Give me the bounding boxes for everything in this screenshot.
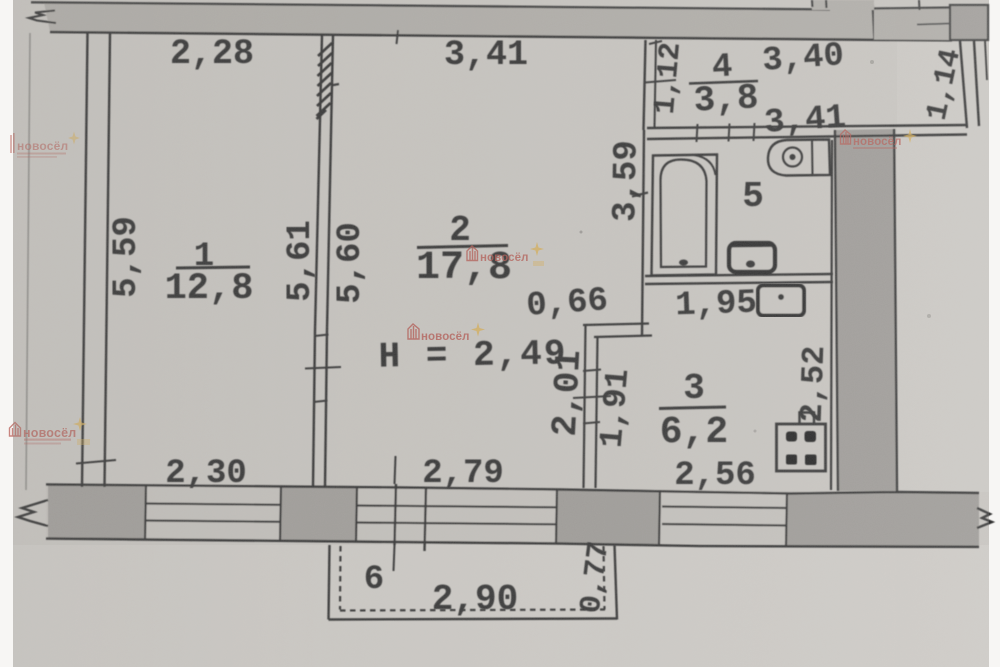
balcony bottom solid edge bbox=[329, 619, 618, 620]
bottom band dark right section bbox=[786, 493, 979, 547]
bottom band dark block 3 bbox=[556, 489, 659, 545]
room2/hallway wall (x~645) upper bbox=[644, 40, 646, 130]
right wall band (vertical) bbox=[835, 129, 897, 491]
dim tick 1,12 y81 bbox=[645, 80, 676, 83]
bottom band dark block 2 bbox=[280, 487, 356, 542]
hallway dim line x655 bbox=[655, 40, 657, 127]
faint building outline line far left bbox=[26, 33, 30, 490]
watermark B (left, y~430) bbox=[10, 417, 91, 445]
middle wall line right bbox=[325, 35, 333, 487]
bathtub inner bbox=[661, 160, 707, 268]
step line in second band bbox=[917, 24, 950, 25]
kitchen wall rung y370 bbox=[583, 370, 601, 372]
top band top edge bbox=[31, 2, 830, 9]
dim extension line above band x395 bbox=[395, 456, 396, 484]
right wall band right edge bbox=[894, 129, 897, 491]
bathroom left wall bbox=[642, 130, 644, 336]
watermark E (right, y~140) bbox=[841, 129, 918, 149]
right wall band left edge bbox=[835, 130, 838, 491]
balcony dashed right bbox=[604, 546, 605, 610]
middle wall dim tick y367 bbox=[305, 367, 341, 369]
hallway right outer wall line B bbox=[974, 41, 979, 126]
kitchen step bottom line bbox=[594, 336, 652, 338]
top band divider at x874 bbox=[873, 0, 875, 40]
left outer wall line bbox=[82, 33, 88, 487]
watermark C (center, over 17,8) bbox=[467, 242, 544, 266]
bottom band bottom edge bbox=[46, 539, 979, 547]
kitchen step top line bbox=[583, 324, 649, 326]
bathroom/kitchen right boundary bbox=[831, 140, 832, 490]
lighter paper right column bbox=[897, 40, 989, 492]
room 4 underline bbox=[689, 81, 758, 84]
bottom band break symbol left bbox=[18, 500, 48, 526]
bottom band break symbol right bbox=[977, 508, 992, 528]
hallway right outer wall line A bbox=[960, 41, 967, 128]
sink faucet circle bbox=[783, 148, 802, 167]
room 2 underline bbox=[417, 246, 508, 248]
sink divider bbox=[811, 140, 814, 175]
kitchen wall rung y422 bbox=[583, 422, 600, 424]
tick on bathroom wall y194 bbox=[632, 193, 648, 197]
room 3 underline bbox=[659, 407, 726, 409]
band join fill below image top bbox=[812, 0, 874, 10]
window mullion x~425 crossing band bbox=[425, 487, 427, 551]
watermark D (center, above H=2,49) bbox=[408, 323, 485, 344]
balcony left solid edge bbox=[329, 545, 330, 620]
dim tick on left wall y460 bbox=[76, 460, 116, 464]
balcony dashed bottom bbox=[340, 610, 605, 611]
bathtub outer rect bbox=[652, 155, 718, 276]
sink faucet dot bbox=[790, 154, 796, 160]
dim extension below band x394 bbox=[394, 545, 395, 571]
toilet tank edge bbox=[731, 242, 773, 247]
middle wall rung y335 bbox=[315, 335, 329, 337]
ticks on hallway bottom wall bbox=[697, 124, 698, 142]
scan noise overlay bbox=[0, 0, 1, 1]
window mullion x~395 crossing band bbox=[395, 484, 397, 545]
bottom band block edges bbox=[145, 485, 146, 540]
toilet body bbox=[729, 243, 775, 272]
middle wall hatched section strokes bbox=[317, 43, 333, 119]
kitchen wall dim tick y396 bbox=[573, 396, 611, 398]
room 1 underline bbox=[176, 267, 250, 268]
washer box overlay (covers digit of 1,95) bbox=[758, 286, 804, 316]
second section top edge bbox=[874, 8, 952, 9]
balcony right solid edge bbox=[615, 545, 618, 620]
top band break symbol (left end) bbox=[29, 11, 56, 24]
middle wall line left (rooms 1/2) bbox=[313, 35, 322, 487]
wall stubs above band bbox=[811, 0, 814, 7]
middle wall hatch tick bbox=[331, 84, 339, 86]
watermark A (left, y~144) bbox=[11, 132, 80, 158]
hallway bottom wall line 2 bbox=[647, 135, 967, 140]
dim tick 1,12 top bbox=[649, 41, 662, 44]
tick on top band x397 bbox=[397, 30, 399, 44]
bathtub drain dot bbox=[679, 260, 688, 266]
bathroom bottom wall line 2 bbox=[645, 282, 833, 284]
sink body bbox=[768, 140, 830, 176]
toilet dot bbox=[746, 261, 755, 268]
bottom wall band: base light fill bbox=[46, 485, 979, 547]
bathtub corner curve bbox=[694, 155, 716, 175]
stove body bbox=[777, 424, 826, 471]
hallway bottom wall line 1 bbox=[647, 125, 967, 128]
top band bottom edge bbox=[50, 32, 952, 40]
window 2 inner lines bbox=[356, 506, 556, 508]
stove burners bbox=[786, 432, 797, 442]
corner block top-right bbox=[950, 5, 988, 40]
top wall band: main section bbox=[44, 3, 874, 40]
left inner wall line bbox=[105, 34, 111, 488]
paper noise dots bbox=[580, 231, 583, 234]
bathroom bottom wall line 1 bbox=[645, 274, 833, 276]
window 3 inner lines bbox=[662, 507, 786, 509]
window 1 inner lines bbox=[146, 504, 280, 505]
middle wall rung y401 bbox=[314, 401, 328, 403]
lighter paper below bottom wall band bbox=[13, 545, 989, 667]
balcony dashed left bbox=[339, 546, 342, 610]
kitchen left wall line B bbox=[596, 337, 598, 488]
kitchen left wall line A bbox=[584, 325, 586, 488]
stove back notch bbox=[800, 413, 815, 425]
bottom band dark block 1 bbox=[48, 485, 146, 541]
dim line 1,14 bbox=[985, 41, 987, 80]
top band second section (hallway top wall) bbox=[874, 8, 950, 40]
bottom band top edge bbox=[46, 485, 979, 494]
